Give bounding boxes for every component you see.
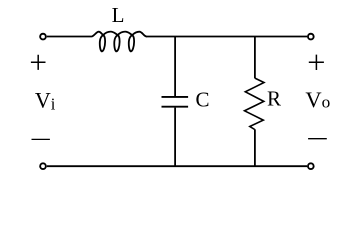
terminal: output top (open circle) (308, 34, 314, 40)
wire: resistor branch lower (254, 129, 256, 166)
svg-text:L: L (112, 3, 125, 27)
terminal: input top (open circle) (40, 34, 46, 40)
capacitor C top plate (162, 96, 189, 98)
label: plus sign (output polarity) (309, 55, 324, 70)
wire: resistor branch upper (254, 37, 256, 79)
label: plus sign (input polarity) (31, 55, 46, 70)
label: minus sign (output polarity) (308, 138, 327, 140)
inductor L (coil drawn as one continuous path with 3 loops) (92, 32, 147, 52)
capacitor C bottom plate (162, 106, 189, 108)
wire: bottom rail (47, 165, 307, 167)
wire: top rail from input terminal to inductor (47, 36, 92, 38)
resistor R (zigzag) (245, 78, 265, 129)
wire: capacitor branch upper (174, 37, 176, 97)
label: minus sign (input polarity) (32, 138, 50, 140)
terminal: input bottom (open circle) (40, 163, 46, 169)
wire: top rail from inductor to output terminal (146, 36, 307, 38)
svg-text:C: C (196, 88, 210, 112)
svg-text:R: R (267, 87, 281, 111)
wire: capacitor branch lower (174, 108, 176, 167)
terminal: output bottom (open circle) (308, 163, 314, 169)
